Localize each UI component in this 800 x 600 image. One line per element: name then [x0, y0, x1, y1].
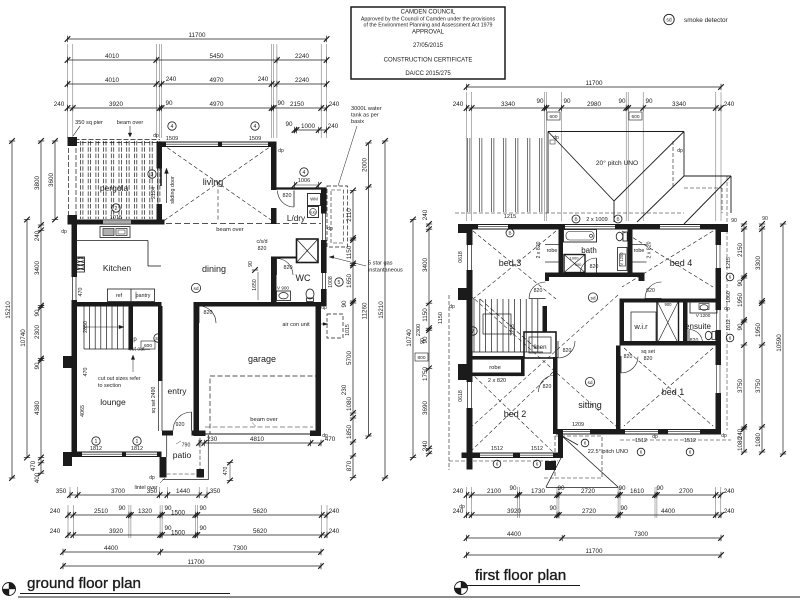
svg-text:3750: 3750 [755, 379, 762, 394]
FF stairs first floor [472, 299, 547, 352]
dimension column FF right sub [737, 221, 747, 455]
svg-text:1000: 1000 [570, 256, 580, 261]
GF note c/sd 820 [257, 239, 268, 252]
svg-text:90: 90 [762, 216, 768, 222]
svg-text:6: 6 [584, 441, 587, 446]
FF bed1 door 820 [620, 356, 622, 373]
svg-text:4970: 4970 [209, 101, 224, 108]
svg-text:4: 4 [171, 124, 174, 130]
FF roof dp labels [550, 135, 683, 154]
svg-text:APPROVAL: APPROVAL [412, 30, 445, 36]
svg-text:820: 820 [690, 338, 699, 344]
GF title: ground floor plan [20, 575, 230, 594]
FF top wall window labels [504, 214, 622, 237]
FF bed4 ceiling cross [622, 231, 713, 287]
FF right window codes [724, 216, 768, 342]
dimension column FF right 10590 [776, 221, 786, 457]
GF left wall piers [63, 356, 72, 466]
GF note 5 star gas instantaneous [329, 256, 403, 274]
dimension column GF right sub [341, 188, 356, 481]
svg-text:20° pitch UNO: 20° pitch UNO [596, 159, 638, 167]
svg-text:ground floor plan: ground floor plan [27, 575, 141, 592]
FF bath door [596, 258, 598, 275]
dimension row GF top row 4010/5450/2240 [65, 53, 330, 63]
FF bed1 ceiling cross [624, 348, 713, 426]
svg-text:3215: 3215 [510, 324, 516, 336]
svg-text:240: 240 [328, 123, 339, 130]
GF witness lines bottom [68, 487, 327, 538]
svg-text:90: 90 [563, 98, 571, 105]
svg-text:3920: 3920 [109, 101, 124, 108]
svg-text:90: 90 [165, 100, 173, 107]
svg-text:living: living [203, 177, 224, 187]
svg-text:Kitchen: Kitchen [103, 263, 132, 273]
svg-text:240: 240 [724, 488, 735, 495]
svg-text:820: 820 [590, 264, 599, 270]
GF broom cupboard cross box [297, 239, 319, 263]
dimension row FF top row [453, 98, 735, 111]
FF bath tub [564, 230, 597, 243]
svg-text:2150: 2150 [290, 101, 305, 108]
svg-text:1: 1 [136, 439, 139, 445]
FF ensuite label and fixtures [685, 301, 717, 340]
svg-text:2850: 2850 [83, 321, 89, 333]
svg-text:beam over: beam over [117, 120, 144, 126]
GF living left wall with sliding door [157, 142, 163, 225]
FF bed2-sitting wall [553, 357, 563, 458]
FF pergola rafters below roof [468, 138, 542, 212]
svg-text:240: 240 [329, 528, 340, 535]
FF bath-bed4 wall [628, 230, 633, 273]
svg-text:400: 400 [34, 472, 41, 483]
svg-text:c/s/d: c/s/d [257, 239, 268, 245]
FF sitting-bed1 bottom wall [556, 429, 721, 435]
svg-text:6: 6 [496, 462, 499, 467]
GF dp labels [61, 133, 333, 481]
GF annotation beam over top [117, 120, 144, 137]
svg-text:5700: 5700 [346, 351, 353, 366]
svg-text:820: 820 [204, 310, 213, 316]
svg-text:entry: entry [168, 386, 188, 396]
svg-text:870: 870 [346, 460, 353, 471]
svg-text:790: 790 [182, 443, 191, 449]
dimension column FF left sub [422, 209, 432, 456]
GF garage door dashed [210, 376, 317, 434]
FF bed1 left wall [616, 346, 621, 435]
FF porch hip roof below sitting [544, 436, 629, 488]
svg-text:2240: 2240 [295, 53, 310, 60]
svg-text:350: 350 [210, 488, 221, 495]
svg-text:V 900: V 900 [277, 286, 289, 291]
FF bath wc [616, 232, 627, 241]
svg-text:1512: 1512 [684, 438, 696, 444]
GF entry front wall [162, 431, 200, 436]
svg-text:820: 820 [543, 384, 552, 390]
svg-text:5620: 5620 [253, 528, 268, 535]
svg-text:90: 90 [118, 505, 126, 512]
svg-text:3300: 3300 [755, 256, 762, 271]
svg-text:240: 240 [422, 209, 429, 220]
svg-text:sq set 2490: sq set 2490 [151, 386, 157, 413]
svg-text:1500: 1500 [171, 529, 186, 536]
GF wc vanity V900 [277, 286, 291, 301]
svg-text:90: 90 [549, 505, 557, 512]
svg-text:patio: patio [173, 450, 192, 460]
GF window code 4-1509 right [242, 122, 268, 143]
svg-text:sliding door: sliding door [170, 176, 176, 204]
FF top wall with windows [467, 224, 722, 230]
svg-text:90: 90 [737, 279, 744, 287]
svg-text:beam over: beam over [216, 227, 243, 233]
svg-text:1015: 1015 [345, 324, 351, 336]
svg-text:pantry: pantry [136, 293, 151, 299]
svg-text:600: 600 [631, 114, 639, 120]
svg-text:bed 4: bed 4 [670, 258, 693, 268]
svg-text:800: 800 [417, 355, 425, 361]
svg-text:up: up [130, 337, 137, 343]
FF bed2 ceiling cross [470, 372, 553, 452]
GF front door 920 [191, 412, 193, 431]
FF linen box [524, 332, 556, 358]
svg-text:2100: 2100 [487, 488, 502, 495]
GF lintel over note [134, 478, 165, 491]
svg-text:920: 920 [176, 422, 185, 428]
svg-text:90: 90 [618, 485, 626, 492]
GF beam over dashed line [76, 223, 321, 225]
FF stair circle 7 [469, 327, 477, 335]
svg-text:2700: 2700 [679, 488, 694, 495]
dimension row FF bottom row1 [453, 485, 735, 498]
svg-text:instantaneous: instantaneous [368, 268, 403, 274]
svg-text:6: 6 [536, 462, 539, 467]
svg-text:CONSTRUCTION CERTIFICATE: CONSTRUCTION CERTIFICATE [384, 58, 473, 64]
sheet border bottom [18, 596, 800, 598]
svg-text:2240: 2240 [295, 77, 310, 84]
svg-text:5620: 5620 [253, 508, 268, 515]
svg-text:240: 240 [422, 440, 429, 451]
svg-text:90: 90 [34, 309, 41, 317]
svg-text:3340: 3340 [672, 101, 687, 108]
svg-text:4400: 4400 [507, 531, 522, 538]
svg-text:470: 470 [30, 460, 37, 471]
svg-text:240: 240 [34, 230, 41, 241]
FF wir robe cross box [657, 301, 679, 344]
svg-text:sd: sd [193, 286, 198, 292]
dimension row FF bottom 4400/7300 [464, 531, 724, 541]
GF pergola top beam dashed [68, 140, 161, 143]
FF bed4 door 820 [645, 298, 662, 300]
svg-text:1850: 1850 [346, 425, 353, 440]
svg-text:dp: dp [321, 305, 327, 311]
svg-text:4970: 4970 [209, 77, 224, 84]
title block: council approval stamp [351, 7, 505, 79]
svg-text:4065: 4065 [80, 405, 86, 417]
dimension column FF right sub2 [755, 221, 765, 455]
dimension column GF left 15210 [5, 138, 15, 481]
dimension row GF bottom 11700 [60, 559, 324, 569]
FF bed3 door 820 [529, 298, 546, 300]
svg-text:5450: 5450 [209, 53, 224, 60]
svg-text:1500: 1500 [171, 509, 186, 516]
svg-text:6: 6 [640, 450, 643, 455]
svg-text:pergola: pergola [100, 183, 129, 193]
svg-text:bed 3: bed 3 [499, 258, 522, 268]
svg-text:240: 240 [724, 508, 735, 515]
svg-text:3700: 3700 [111, 488, 126, 495]
svg-text:900: 900 [575, 262, 582, 267]
svg-text:15210: 15210 [378, 301, 385, 319]
dimension row GF bottom row2 [50, 505, 340, 518]
svg-text:2 x 1009: 2 x 1009 [586, 217, 607, 223]
svg-text:2 x 820: 2 x 820 [488, 378, 506, 384]
FF title: first floor plan [467, 567, 580, 586]
svg-text:1209: 1209 [572, 422, 584, 428]
svg-text:linen: linen [533, 344, 547, 351]
svg-text:1080: 1080 [346, 397, 353, 412]
FF right wall [716, 224, 722, 434]
svg-text:27/05/2015: 27/05/2015 [413, 43, 444, 49]
svg-text:lounge: lounge [100, 397, 126, 407]
svg-text:3600: 3600 [48, 173, 55, 188]
GF garage walls [194, 302, 322, 436]
svg-text:1950: 1950 [737, 293, 744, 308]
dimension row GF bottom 4400/7300 [60, 545, 324, 555]
svg-text:4010: 4010 [105, 77, 120, 84]
svg-text:of the Environment Planning an: of the Environment Planning and Assessme… [364, 23, 493, 29]
svg-text:470: 470 [83, 368, 89, 377]
dimension row GF top row 90/1000/240 [285, 121, 338, 133]
GF window code 2-1015 pergola [110, 204, 122, 221]
svg-text:15210: 15210 [5, 301, 12, 319]
dimension row FF bottom 11700 [464, 548, 724, 558]
svg-text:1750: 1750 [422, 367, 429, 382]
svg-text:3750: 3750 [737, 379, 744, 394]
svg-text:3000L water: 3000L water [351, 106, 382, 112]
svg-text:1509: 1509 [249, 136, 261, 142]
svg-text:470: 470 [325, 436, 336, 443]
svg-text:B: B [508, 231, 511, 236]
svg-text:dp: dp [149, 475, 155, 481]
GF stairs labels [128, 334, 162, 353]
svg-text:sitting: sitting [578, 400, 602, 410]
svg-text:dp: dp [61, 229, 67, 235]
svg-text:820: 820 [258, 246, 267, 252]
svg-text:2 x 820: 2 x 820 [536, 241, 542, 258]
FF bed3 ceiling cross [473, 231, 556, 299]
svg-text:240: 240 [453, 488, 464, 495]
svg-text:dining: dining [202, 264, 226, 274]
svg-text:350 sq pier: 350 sq pier [75, 120, 103, 126]
svg-text:3920: 3920 [507, 508, 522, 515]
FF window labels 1512 bed2 [491, 446, 543, 468]
svg-text:240: 240 [50, 528, 61, 535]
GF stairs [84, 307, 133, 350]
svg-text:1509: 1509 [166, 136, 178, 142]
svg-text:240: 240 [258, 76, 269, 83]
dimension row GF top row 240/3920/90/4970/90/2150/240 [54, 100, 340, 111]
svg-text:cut out sizes refer: cut out sizes refer [98, 376, 141, 382]
svg-text:to section: to section [98, 383, 121, 389]
svg-text:L/dry: L/dry [287, 214, 306, 223]
svg-text:22.5° pitch UNO: 22.5° pitch UNO [588, 449, 629, 455]
svg-text:tank as per: tank as per [351, 113, 379, 119]
svg-text:90: 90 [199, 505, 207, 512]
svg-text:90: 90 [285, 121, 293, 128]
dimension column GF right 15210 [378, 138, 388, 481]
GF kitchen top wall (pergola bottom) [68, 220, 165, 225]
svg-text:2300: 2300 [416, 324, 422, 336]
svg-text:2: 2 [115, 206, 118, 212]
svg-text:B: B [574, 217, 577, 222]
svg-text:WC: WC [296, 273, 311, 283]
GF lounge-entry wall [158, 306, 163, 431]
svg-text:1000: 1000 [301, 123, 316, 130]
svg-text:350: 350 [56, 488, 67, 495]
FF bath vanity V1200 [618, 248, 628, 271]
svg-text:V 1200: V 1200 [696, 313, 711, 318]
svg-text:4810: 4810 [250, 436, 265, 443]
GF wc walls [271, 258, 297, 307]
svg-text:2300: 2300 [34, 325, 41, 340]
svg-text:90: 90 [656, 485, 664, 492]
svg-text:first floor plan: first floor plan [475, 567, 566, 584]
svg-text:3800: 3800 [34, 176, 41, 191]
svg-text:air con unit: air con unit [282, 322, 310, 328]
svg-text:1812: 1812 [90, 446, 102, 452]
GF pergola left posts line [68, 137, 78, 224]
dimension row GF bottom 350/3700/350/1440/350 [56, 488, 221, 498]
svg-text:820: 820 [644, 356, 653, 362]
svg-text:11260: 11260 [361, 302, 368, 320]
svg-text:2720: 2720 [581, 488, 596, 495]
svg-text:240: 240 [724, 101, 735, 108]
svg-text:2150: 2150 [737, 243, 744, 258]
GF pergola rafters [81, 141, 160, 219]
svg-text:1650: 1650 [252, 279, 258, 291]
FF bath linen cross box [564, 255, 585, 273]
svg-text:1215: 1215 [504, 214, 516, 220]
svg-text:sd: sd [590, 296, 595, 302]
svg-text:90: 90 [199, 525, 207, 532]
FF wir-ensuite block walls [620, 299, 722, 346]
GF dim 90 dining [248, 261, 258, 273]
svg-text:90: 90 [341, 300, 348, 308]
GF note cut out sizes [98, 355, 141, 389]
GF water tank dashed [327, 186, 348, 247]
svg-text:11700: 11700 [585, 548, 603, 555]
svg-text:4400: 4400 [661, 508, 676, 515]
svg-text:6: 6 [729, 275, 732, 280]
svg-text:tub: tub [310, 210, 316, 215]
dimension row GF 230/4810/470 [196, 436, 336, 446]
svg-text:2510: 2510 [94, 508, 109, 515]
GF north/datum symbol [3, 583, 16, 596]
FF hall door by linen 820 [557, 341, 559, 358]
GF living right wall [271, 142, 277, 225]
GF dim 470 patio [223, 460, 233, 484]
svg-text:600: 600 [144, 343, 152, 349]
svg-text:1610: 1610 [630, 488, 645, 495]
FF smoke detectors [585, 293, 597, 387]
svg-text:4010: 4010 [105, 53, 120, 60]
svg-text:2 x 820: 2 x 820 [647, 241, 653, 258]
svg-text:robe: robe [489, 365, 501, 371]
FF boxed 600 labels [547, 112, 642, 120]
svg-text:1512: 1512 [635, 438, 647, 444]
svg-text:5 star gas: 5 star gas [368, 261, 393, 267]
FF robe labels bed3/bed4 [536, 241, 653, 262]
svg-text:10740: 10740 [406, 329, 413, 347]
svg-text:90: 90 [248, 261, 254, 267]
svg-text:B: B [616, 217, 619, 222]
svg-text:1: 1 [95, 439, 98, 445]
svg-text:1512: 1512 [531, 446, 543, 452]
GF annotation 350 sq pier [73, 120, 103, 136]
svg-text:1650: 1650 [346, 274, 353, 289]
GF ldry fixtures [308, 194, 321, 218]
GF smoke detector dining [191, 283, 200, 292]
GF wc toilet [306, 289, 314, 301]
GF patio [160, 432, 209, 480]
svg-text:820: 820 [283, 193, 292, 199]
svg-text:4400: 4400 [104, 545, 119, 552]
svg-text:0618: 0618 [458, 390, 464, 402]
GF living ceiling cross dashed [162, 144, 274, 222]
svg-text:dp: dp [278, 148, 284, 154]
svg-text:90: 90 [277, 100, 285, 107]
svg-text:bed 2: bed 2 [504, 409, 527, 419]
FF window labels 1512 bed1 [581, 438, 696, 456]
svg-text:230: 230 [207, 436, 218, 443]
svg-text:V 1200: V 1200 [619, 252, 624, 266]
FF bed2 door 820 [555, 375, 557, 392]
dimension column GF right 11260 [361, 140, 371, 439]
svg-text:2124: 2124 [151, 187, 157, 199]
svg-text:900: 900 [665, 302, 673, 307]
svg-text:4: 4 [254, 124, 257, 130]
svg-text:7300: 7300 [233, 545, 248, 552]
FF bed2 bottom wall [462, 453, 562, 459]
svg-text:1008: 1008 [328, 276, 334, 288]
svg-text:robe: robe [547, 248, 558, 254]
FF north/datum symbol [455, 582, 468, 595]
dimension row FF bottom row2 [453, 505, 735, 518]
GF wall hatch block kitchen [77, 257, 85, 272]
GF kitchen bench and sink [77, 227, 161, 267]
svg-text:240: 240 [54, 101, 65, 108]
FF ensuite door 820 [688, 330, 690, 344]
svg-text:lintel over: lintel over [134, 485, 157, 491]
GF door width 790 [176, 441, 190, 449]
svg-text:11700: 11700 [187, 559, 205, 566]
svg-text:3400: 3400 [34, 261, 41, 276]
GF dim 1650 dining [252, 272, 258, 300]
svg-text:dp: dp [327, 226, 333, 232]
svg-text:1150: 1150 [422, 308, 429, 322]
svg-text:1512: 1512 [491, 446, 503, 452]
FF roof hip outline [548, 132, 731, 225]
svg-text:DA/CC 2015/275: DA/CC 2015/275 [405, 71, 451, 77]
svg-text:1080: 1080 [755, 433, 762, 448]
svg-text:600: 600 [549, 114, 557, 120]
FF left extra dims [416, 312, 444, 344]
svg-text:6: 6 [689, 450, 692, 455]
svg-text:1150: 1150 [438, 312, 444, 324]
GF ref pantry cupboards [108, 289, 155, 302]
svg-text:bed 1: bed 1 [662, 387, 685, 397]
svg-text:90: 90 [509, 485, 517, 492]
GF window code 1008 and circle 5 [328, 276, 343, 288]
